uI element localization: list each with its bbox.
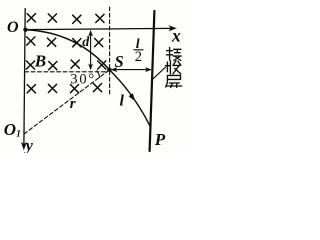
fraction bar of l/2 <box>134 49 143 51</box>
svg-text:S: S <box>115 52 124 71</box>
cross r3c3 <box>71 60 79 68</box>
angle arc 30 deg at S <box>97 71 100 78</box>
svg-text:y: y <box>24 138 34 154</box>
trajectory straight segment S to P <box>109 70 150 127</box>
cross r3c1 <box>26 61 34 69</box>
cross r4c4 <box>93 84 101 92</box>
svg-text:30°: 30° <box>70 72 96 88</box>
cross r2c2 <box>48 38 56 46</box>
receiving screen line <box>150 11 155 151</box>
cross r2c4 <box>95 38 103 46</box>
cross r1c3 <box>73 15 81 23</box>
svg-text:l: l <box>120 93 125 110</box>
cross r1c2 <box>48 14 56 22</box>
char shou (collect) <box>165 61 180 74</box>
l/2 measure arrow <box>111 67 153 72</box>
velocity arrowhead on SP segment <box>129 93 136 101</box>
svg-text:P: P <box>154 130 166 149</box>
cross r2c3 <box>73 39 81 47</box>
d measure arrow <box>88 30 93 71</box>
depth level dashed horizontal <box>25 71 108 73</box>
screen leader line <box>153 67 166 79</box>
radius r dashed line O1 to S <box>24 70 109 134</box>
field crosses <box>26 14 105 93</box>
svg-text:2: 2 <box>135 49 142 65</box>
cross r1c4 <box>96 14 104 22</box>
cross r3c2 <box>49 62 57 70</box>
chinese label: receiving screen (drawn strokes) <box>165 48 181 88</box>
cross r3c4 <box>98 61 106 69</box>
trajectory arc O to S <box>26 30 110 70</box>
svg-text:r: r <box>70 96 76 112</box>
svg-text:x: x <box>171 26 181 46</box>
cross r4c1 <box>27 85 35 93</box>
cross r4c2 <box>48 84 56 92</box>
svg-text:d: d <box>82 35 90 50</box>
svg-text:B: B <box>34 51 46 70</box>
x-axis <box>26 25 177 31</box>
point O dot <box>23 28 27 32</box>
svg-text:O: O <box>7 19 19 36</box>
point S dot <box>107 68 111 72</box>
char ping (screen) <box>166 75 182 87</box>
field boundary dashed vertical <box>109 7 111 95</box>
char jie (receive) <box>166 48 181 61</box>
cross r4c3 <box>70 85 78 93</box>
y-axis <box>21 9 27 151</box>
cross r1c1 <box>27 14 35 22</box>
cross r2c1 <box>27 37 35 45</box>
